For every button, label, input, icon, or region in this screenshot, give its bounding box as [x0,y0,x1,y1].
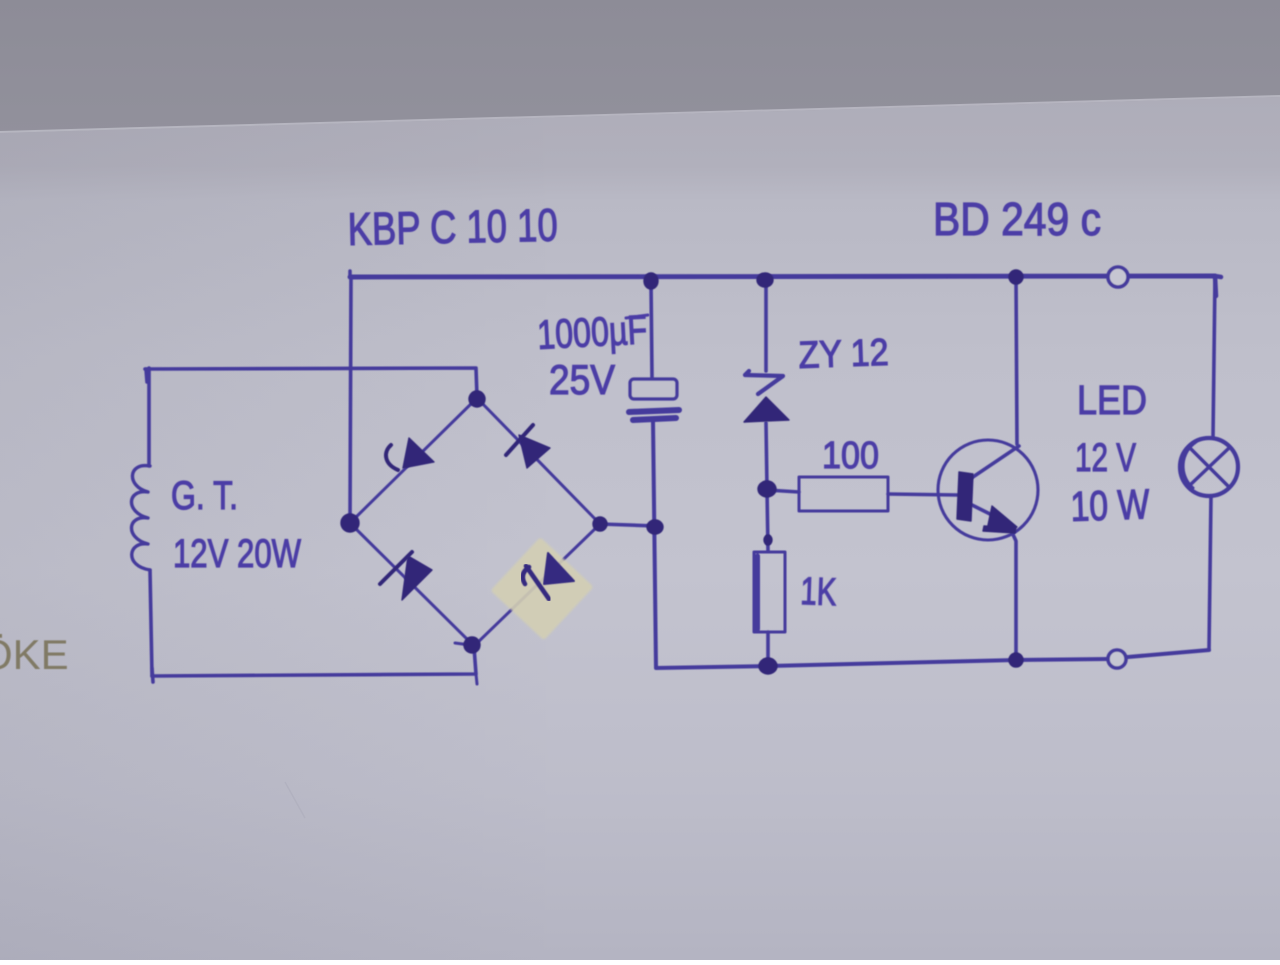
wire: left drop from top rail to bridge [350,277,351,522]
svg-text:12 V: 12 V [1075,436,1136,480]
svg-text:G. T.: G. T. [171,474,238,518]
terminal circle top [1108,267,1128,287]
LED lamp circle [1180,438,1238,496]
diode D3 cathode bar [380,552,412,584]
transformer left vertical top [147,368,151,466]
junction dot 1K bottom [759,658,777,674]
svg-text:12V 20W: 12V 20W [173,532,301,576]
transistor Q1 emitter wire down [1010,528,1016,660]
svg-text:KBP C 10 10: KBP C 10 10 [347,199,558,255]
capacitor C1 bottom plate [629,410,679,420]
transistor Q1 emitter line [972,505,1002,520]
junction dot bridge left vertex [341,514,359,532]
junction dot bottom transistor [1009,653,1023,667]
transistor Q1 emitter arrowhead [987,506,1017,530]
resistor 100 left lead [767,490,799,492]
bridge edge right-bottom [474,524,600,646]
transistor Q1 collector wire up [1016,277,1017,444]
junction small blob above 1K [764,535,772,545]
resistor 100 right lead [888,494,958,495]
labels (handwritten ink) [171,193,1151,614]
junction dot bridge bottom vertex [464,637,480,653]
wire: right rail down to LED [1213,276,1215,438]
svg-text:25V: 25V [549,356,615,403]
junction dot bridge right vertex [593,517,607,531]
transistor Q1 emitter arrow base tick [983,526,1016,533]
bridge edge top-right [477,398,600,524]
terminal circle bottom [1108,650,1126,668]
bridge bottom overshoot tick [476,674,477,684]
resistor 1K thick left edge [755,556,760,629]
diode D1 cathode bar [386,445,398,470]
capacitor C1 top lead [651,281,652,377]
wire: bottom rail left section [152,647,476,676]
wire: LED bottom to bottom-right corner [1209,496,1211,650]
diode D4 drawn on tape [544,553,574,584]
resistor 1K bottom lead [766,632,770,664]
junction dot cap mid node [647,520,663,534]
wire: top rail [350,276,1215,277]
junction dot bridge top vertex [469,391,485,407]
svg-text:1000µF: 1000µF [536,306,648,358]
zener ZY12 anode triangle [744,397,789,422]
resistor 100 box [799,477,888,511]
LED lamp X [1189,448,1229,487]
zener ZY12 lower lead [766,423,768,551]
svg-text:100: 100 [822,435,879,477]
bridge edge left-top [350,398,477,523]
transformer bottom-left tick [152,668,153,682]
diode D4 hook [523,567,529,584]
diode D2 triangle (upper-right) [519,435,550,468]
label 1000uF overline [626,315,648,318]
junction dot zener node [758,481,776,497]
svg-text:ZY 12: ZY 12 [798,332,889,377]
transformer coil [131,466,150,570]
paper edge highlight [0,96,1280,132]
backdrop above paper [0,0,1280,200]
top rail left nub [348,271,352,277]
junction dot top of capacitor [644,273,658,289]
svg-text:1K: 1K [800,570,837,614]
bridge edge bottom-left [350,523,474,646]
zener ZY12 top lead [764,281,768,371]
diode D2 cathode bar [506,425,533,455]
tape patch [490,537,593,640]
diode D3 triangle (lower-left) [402,556,432,600]
svg-text:BD 249 c: BD 249 c [933,193,1101,245]
resistor 1K box [754,552,785,632]
svg-text:10 W: 10 W [1070,480,1151,530]
wire: bottom rail right section [653,421,1209,668]
junction dot top of zener [757,273,773,287]
junction dot collector top [1009,270,1023,284]
svg-text:LED: LED [1077,377,1147,423]
bridge bottom left tick [455,643,470,645]
diode D4 bar stroke [526,566,549,599]
capacitor C1 top plate [630,379,677,399]
transistor Q1 circle [938,440,1038,540]
transformer left vertical bottom [150,570,152,676]
transformer top-left tick [146,369,147,382]
transistor Q1 base bar [957,472,973,521]
faint scratch mark [285,782,305,818]
svg-text:ÖKE: ÖKE [0,631,69,678]
transistor Q1 collector line [970,446,1019,479]
wire: bridge right vertex to cap lead [600,524,656,526]
top rail right corner nub [1215,276,1221,296]
diode D1 triangle (upper-left) [403,438,434,468]
zener ZY12 cathode bar [745,371,783,394]
transformer G.T. top wire [145,368,477,397]
LED lamp left edge doubling [1183,442,1196,488]
